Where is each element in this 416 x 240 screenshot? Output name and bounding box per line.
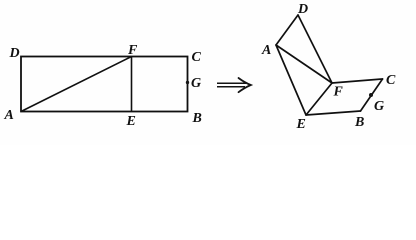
svg-text:C: C bbox=[192, 50, 202, 65]
wire vertical FE (left figure) bbox=[131, 57, 133, 112]
wire CB (right figure) bbox=[361, 79, 383, 111]
arrow implies bbox=[217, 78, 251, 92]
svg-text:G: G bbox=[374, 99, 384, 114]
wire DA (right figure) bbox=[276, 15, 298, 45]
node G dot (left figure) bbox=[186, 81, 189, 84]
svg-text:A: A bbox=[261, 43, 271, 58]
svg-text:D: D bbox=[9, 46, 20, 61]
wire diagonal AF (left figure) bbox=[21, 57, 132, 112]
svg-text:F: F bbox=[333, 85, 344, 100]
wire FC (right figure) bbox=[332, 79, 383, 83]
node G dot (right figure) bbox=[369, 93, 373, 97]
rectangle ABCD (left figure) bbox=[21, 57, 188, 112]
svg-text:D: D bbox=[297, 2, 308, 17]
svg-text:E: E bbox=[296, 117, 306, 132]
wire DF (right figure) bbox=[298, 15, 332, 83]
svg-text:E: E bbox=[126, 114, 136, 129]
svg-text:B: B bbox=[192, 111, 202, 126]
svg-text:C: C bbox=[386, 73, 396, 88]
right figure: folded shape bbox=[276, 15, 383, 115]
svg-text:B: B bbox=[354, 115, 364, 130]
wire AF (right figure) bbox=[276, 45, 332, 83]
wire AE (right figure) bbox=[276, 45, 306, 115]
svg-text:G: G bbox=[191, 76, 201, 91]
wire BE (right figure) bbox=[306, 111, 361, 115]
svg-text:A: A bbox=[4, 108, 14, 123]
svg-text:F: F bbox=[127, 43, 138, 58]
wire EF (right figure) bbox=[306, 83, 332, 115]
